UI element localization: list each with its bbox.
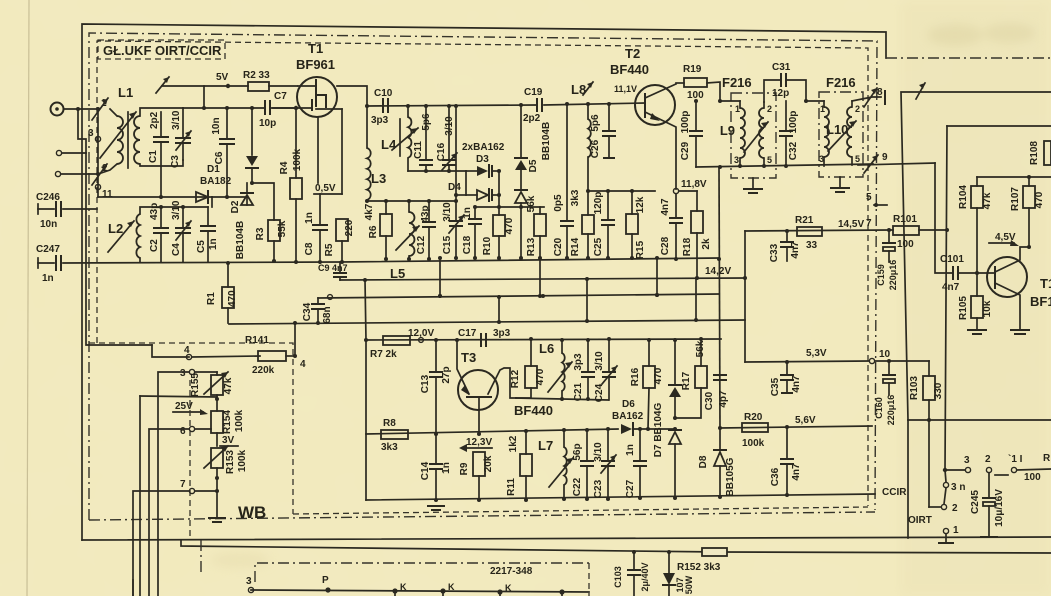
svg-text:C31: C31 <box>772 62 791 73</box>
output wire y420 <box>908 419 1051 421</box>
C4 3/10 variable <box>171 200 191 262</box>
supply wire left stub with arrow <box>162 85 204 87</box>
D6 BA162 series diode <box>612 399 675 435</box>
connector wire y590 <box>251 590 589 592</box>
D7 BB104G varicap pair <box>653 340 681 500</box>
svg-text:3: 3 <box>734 155 739 165</box>
svg-text:C159: C159 <box>876 264 886 286</box>
main RF rail y106 <box>367 105 536 106</box>
svg-text:K: K <box>448 582 455 592</box>
svg-text:2: 2 <box>767 104 772 114</box>
rail junction dots <box>365 104 369 108</box>
svg-text:100k: 100k <box>234 409 245 432</box>
svg-text:D2: D2 <box>230 200 241 213</box>
svg-text:3/10: 3/10 <box>171 200 182 220</box>
connector pins K <box>392 582 564 596</box>
R7 2k <box>370 336 410 360</box>
svg-text:3/10: 3/10 <box>593 442 604 462</box>
svg-text:100p: 100p <box>788 111 799 134</box>
svg-text:C35: C35 <box>770 377 781 396</box>
T3 BF440 <box>457 341 553 436</box>
C32 100p <box>780 101 799 166</box>
R20 100k <box>742 412 768 449</box>
switch contact 3n <box>943 470 965 493</box>
R12 470 <box>510 339 546 398</box>
svg-text:100: 100 <box>897 239 914 250</box>
supply rail B y280 (14,2V) <box>340 278 745 280</box>
svg-text:3p3: 3p3 <box>371 115 389 126</box>
svg-text:R107: R107 <box>1010 187 1021 211</box>
svg-text:R141: R141 <box>245 335 269 346</box>
svg-text:C160: C160 <box>874 397 884 419</box>
R103 330 <box>909 361 944 507</box>
svg-text:10k: 10k <box>982 300 993 317</box>
svg-text:10: 10 <box>879 349 891 360</box>
base rail F y434 <box>366 429 618 434</box>
T1 BF961 <box>273 41 342 183</box>
svg-text:BB104B: BB104B <box>541 122 552 160</box>
C103 <box>613 550 650 596</box>
svg-text:WB: WB <box>238 503 266 522</box>
svg-text:C21: C21 <box>573 382 584 401</box>
svg-text:C13: C13 <box>420 374 431 393</box>
svg-text:R18: R18 <box>682 237 693 256</box>
svg-text:5p6: 5p6 <box>590 114 601 132</box>
R17 56k <box>675 337 707 418</box>
svg-text:C5: C5 <box>196 240 207 253</box>
svg-text:R1: R1 <box>206 292 217 305</box>
svg-text:3: 3 <box>246 576 252 587</box>
svg-text:3: 3 <box>964 455 970 466</box>
svg-text:3: 3 <box>88 128 94 139</box>
R155 47k pot <box>190 372 234 411</box>
svg-text:220μ16: 220μ16 <box>888 260 898 291</box>
svg-text:1n: 1n <box>208 238 219 250</box>
svg-text:C23: C23 <box>593 479 604 498</box>
C9 4n7 <box>318 262 348 280</box>
antenna wire top right <box>901 92 1051 420</box>
L1 primary winding <box>117 116 123 164</box>
svg-text:3/10: 3/10 <box>444 116 455 136</box>
svg-text:220k: 220k <box>252 365 275 376</box>
D8 BB105G <box>698 428 736 499</box>
wire D1/D2 to R3 <box>252 183 274 220</box>
L2 tuning arrow <box>108 221 134 252</box>
svg-text:R103: R103 <box>909 376 920 400</box>
C16 3/10 variable <box>436 106 457 173</box>
R153 bottom ground <box>209 491 225 522</box>
svg-text:3/10: 3/10 <box>442 202 453 222</box>
R154 100k <box>211 409 245 446</box>
node 1 tuning arrow <box>92 98 108 120</box>
svg-text:R105: R105 <box>958 296 969 320</box>
L1 tuning arrow <box>100 112 136 158</box>
WB block dashed cutout border <box>89 343 293 514</box>
svg-text:C22: C22 <box>572 477 583 496</box>
svg-text:4n7: 4n7 <box>660 198 671 216</box>
node 2 tuning arrow <box>92 164 107 185</box>
D4 diode <box>448 182 499 201</box>
svg-text:L9: L9 <box>720 123 735 138</box>
rail C y297 <box>318 294 719 298</box>
bottom strip dashed right edge <box>588 563 590 596</box>
svg-text:L5: L5 <box>390 266 405 281</box>
5,3V wire y362 <box>745 361 869 362</box>
C159 220u16 <box>876 228 898 290</box>
wire terminal3 to node2 <box>61 173 98 175</box>
svg-text:L7: L7 <box>538 438 553 453</box>
svg-text:C33: C33 <box>769 243 780 262</box>
C17 3p3 series <box>458 328 511 346</box>
node 9 output <box>858 152 935 173</box>
svg-text:R12: R12 <box>510 369 521 388</box>
svg-text:C2: C2 <box>149 239 160 252</box>
svg-text:100k: 100k <box>742 438 765 449</box>
R1 470 <box>206 261 238 323</box>
svg-text:R2 33: R2 33 <box>243 70 270 81</box>
svg-text:C4: C4 <box>171 243 182 256</box>
C23 3/10 variable <box>593 427 616 501</box>
svg-text:1n: 1n <box>462 207 473 219</box>
left vertical x366 down <box>365 340 367 500</box>
zener diode bottom <box>663 550 694 596</box>
IF block top border <box>947 125 1051 127</box>
C22 56p <box>572 428 593 501</box>
svg-text:1n: 1n <box>42 273 54 284</box>
R107 470 <box>1010 177 1045 249</box>
svg-text:2p2: 2p2 <box>523 113 541 124</box>
svg-text:T1: T1 <box>308 41 323 56</box>
node 3 testpoint <box>95 136 100 141</box>
svg-text:K: K <box>505 583 512 593</box>
svg-text:120p: 120p <box>593 192 604 215</box>
L10 transformer <box>819 101 860 166</box>
antenna ground wire x86 <box>86 153 152 345</box>
wire x908 down <box>907 420 909 538</box>
svg-text:2217-348: 2217-348 <box>490 566 533 577</box>
C20 0p5 <box>553 104 573 260</box>
svg-text:D7 BB104G: D7 BB104G <box>653 403 664 458</box>
svg-text:3: 3 <box>180 368 186 379</box>
L2 winding <box>136 214 140 258</box>
riser rail197 to L2 tank <box>211 197 213 207</box>
svg-text:C17: C17 <box>458 328 477 339</box>
svg-text:3V: 3V <box>222 435 235 446</box>
svg-text:C9 4n7: C9 4n7 <box>318 263 348 273</box>
module dash-dot bottom border <box>89 512 875 520</box>
R8 3k3 <box>381 418 408 453</box>
T2 BF440 <box>610 46 676 189</box>
C160 220u16 <box>874 361 896 425</box>
C34 68n <box>302 298 333 324</box>
oscillator tank top rail y201 <box>367 200 456 202</box>
AFC wire y428 <box>720 426 872 428</box>
L5 <box>390 201 419 281</box>
C36 4n7 <box>770 427 802 497</box>
C19 2p2 <box>523 87 543 124</box>
3V label <box>220 435 238 446</box>
svg-text:220: 220 <box>344 219 355 236</box>
svg-text:C3: C3 <box>170 155 181 168</box>
T101 BF194 <box>987 247 1051 330</box>
svg-text:R19: R19 <box>683 64 702 75</box>
ground symbol under L10 <box>831 177 849 192</box>
ground rail G y500 <box>366 494 875 500</box>
node 3 circle <box>158 368 217 596</box>
svg-text:56k: 56k <box>695 340 706 357</box>
R19 100 <box>676 64 720 101</box>
svg-text:K: K <box>400 582 407 592</box>
svg-text:R17: R17 <box>681 371 692 390</box>
svg-text:68n: 68n <box>322 306 333 323</box>
svg-text:47k: 47k <box>982 192 993 209</box>
svg-text:100: 100 <box>1024 472 1041 483</box>
svg-text:R20: R20 <box>744 412 763 423</box>
node 1 dot <box>96 107 100 111</box>
L4 tank bottom rail <box>408 170 466 172</box>
node 10 <box>869 349 929 364</box>
svg-text:2xBA162: 2xBA162 <box>462 142 505 153</box>
svg-text:0p5: 0p5 <box>553 194 564 212</box>
svg-text:T3: T3 <box>461 350 476 365</box>
svg-text:6: 6 <box>180 426 186 437</box>
svg-text:3p3: 3p3 <box>573 353 584 371</box>
svg-text:C11: C11 <box>413 141 424 159</box>
wire R19 to L9 <box>720 100 740 102</box>
svg-text:11: 11 <box>102 189 113 200</box>
C10 3p3 <box>371 88 393 126</box>
svg-text:C12: C12 <box>416 235 427 254</box>
svg-text:33: 33 <box>806 240 818 251</box>
svg-text:R104: R104 <box>958 185 969 209</box>
wire antenna shield loop <box>78 109 86 153</box>
T1 drain feed corner <box>337 86 367 106</box>
svg-text:2p2: 2p2 <box>149 111 160 129</box>
node 11 testpoint <box>95 184 100 189</box>
C13 27p <box>420 340 452 436</box>
R21 supply wire y231 <box>745 230 893 231</box>
svg-text:R6: R6 <box>368 225 379 238</box>
R14 3k3 <box>570 189 594 260</box>
supply rail H y177 <box>977 176 1051 178</box>
riser x499 C to D <box>498 296 500 322</box>
node column x98 <box>97 109 99 197</box>
svg-text:5: 5 <box>866 192 872 203</box>
C246 feedthrough <box>36 192 97 230</box>
svg-text:F216: F216 <box>826 75 856 90</box>
collector wire to L6 tank y399 <box>516 398 608 400</box>
0,5V label <box>314 183 342 194</box>
left feed riser x365 <box>365 280 366 340</box>
faint page fold line left <box>27 0 29 596</box>
svg-text:4n7: 4n7 <box>791 463 802 481</box>
svg-text:3p3: 3p3 <box>493 328 511 339</box>
IF rail y191 <box>588 190 655 192</box>
antenna connector J1 <box>51 103 64 116</box>
D2 BB104B varicap <box>230 183 253 259</box>
svg-text:7: 7 <box>180 479 186 490</box>
R101 100 <box>893 214 947 250</box>
rail E y340 <box>366 339 721 340</box>
L1 secondary winding <box>134 116 140 164</box>
ghost bleed-through text top right <box>210 23 1036 568</box>
12,3V label <box>459 437 492 452</box>
svg-text:11,1V: 11,1V <box>614 84 637 94</box>
svg-text:D4: D4 <box>448 182 461 193</box>
svg-text:C16: C16 <box>436 142 447 161</box>
svg-text:5,3V: 5,3V <box>806 348 827 359</box>
svg-text:R153: R153 <box>225 450 236 474</box>
node 7 circle <box>133 479 219 596</box>
D3/D4 left tie <box>465 171 467 195</box>
svg-text:10n: 10n <box>211 117 222 134</box>
module dash-dot border <box>89 33 877 520</box>
riser x719 F216 gnd to lower <box>719 168 720 428</box>
svg-text:10n: 10n <box>40 219 57 230</box>
svg-text:C14: C14 <box>420 461 431 480</box>
C3 3/10 variable <box>170 108 191 168</box>
switch contact 3 <box>943 455 971 473</box>
L1 tank top rail <box>140 108 183 116</box>
wire terminal2 <box>62 152 86 154</box>
svg-text:C25: C25 <box>593 237 604 256</box>
svg-text:4: 4 <box>300 359 306 370</box>
C30 4p7 <box>704 375 729 410</box>
R153 100k pot <box>204 446 248 489</box>
svg-text:1: 1 <box>953 525 959 536</box>
C18 1n <box>462 207 481 260</box>
svg-text:3k3: 3k3 <box>381 442 398 453</box>
svg-text:BF440: BF440 <box>514 403 553 418</box>
module outer solid border <box>82 24 886 540</box>
bias wire y207 <box>456 194 466 196</box>
svg-text:L4: L4 <box>381 137 397 152</box>
svg-text:R152 3k3: R152 3k3 <box>677 562 721 573</box>
svg-text:C27: C27 <box>625 479 636 498</box>
svg-text:2: 2 <box>952 503 958 514</box>
svg-text:R14: R14 <box>570 237 581 256</box>
rail continues after C19 <box>544 103 645 105</box>
svg-text:330: 330 <box>933 382 944 399</box>
C12 43p <box>416 201 435 261</box>
R21 33 <box>795 215 822 251</box>
R141 220k <box>192 323 306 376</box>
node 2 dot <box>96 172 100 176</box>
svg-text:C7: C7 <box>274 91 287 102</box>
11,8V node <box>673 179 707 194</box>
svg-text:C20: C20 <box>553 237 564 256</box>
L4 <box>381 106 418 171</box>
svg-text:3/10: 3/10 <box>171 110 182 130</box>
svg-text:BF440: BF440 <box>610 62 649 77</box>
svg-text:C36: C36 <box>770 467 781 486</box>
svg-text:5V: 5V <box>216 72 229 83</box>
node 8 output <box>852 87 885 107</box>
D3 diode <box>466 154 499 177</box>
connector pin 3 <box>246 576 254 593</box>
svg-text:5: 5 <box>767 155 772 165</box>
svg-text:4k7: 4k7 <box>364 203 375 220</box>
IF block left wire x947 <box>945 126 947 470</box>
riser x587 B to D <box>586 279 588 321</box>
svg-text:56p: 56p <box>572 443 583 460</box>
C21 3p3 <box>573 340 594 401</box>
F216 box 2 <box>819 92 863 177</box>
label box GL.UKF <box>98 40 225 59</box>
module dashed inner border bottom <box>293 507 868 514</box>
rail D y322 <box>229 320 745 324</box>
svg-text:4n7: 4n7 <box>790 241 801 259</box>
D5 BB104B varicap pair <box>515 105 552 260</box>
svg-text:R154: R154 <box>222 410 233 434</box>
svg-text:100k: 100k <box>237 449 248 472</box>
R5 220 <box>324 219 355 264</box>
antenna terminal 2 <box>56 150 61 155</box>
svg-text:14,2V: 14,2V <box>705 266 731 277</box>
25V label <box>173 401 208 415</box>
pot gang dashed link <box>189 380 191 540</box>
svg-text:C24: C24 <box>594 383 605 402</box>
svg-text:R10: R10 <box>482 236 493 255</box>
L9 transformer <box>720 101 772 167</box>
C2 43p trimmer <box>149 203 168 262</box>
svg-text:470: 470 <box>535 368 546 385</box>
R105 10k <box>958 273 993 334</box>
svg-text:12p: 12p <box>772 88 789 99</box>
svg-text:R11: R11 <box>506 478 517 496</box>
F216 ground rail y167 <box>696 164 873 167</box>
svg-text:43p: 43p <box>149 203 160 220</box>
switch blade to contact 2 <box>929 488 958 514</box>
svg-text:C28: C28 <box>660 236 671 255</box>
ground symbol under L9 <box>744 178 762 193</box>
C27 1n <box>625 427 646 500</box>
module dashed inner border top <box>97 41 868 506</box>
svg-text:C246: C246 <box>36 192 60 203</box>
riser x543 / x657 <box>655 256 659 297</box>
svg-text:D3: D3 <box>476 154 489 165</box>
node 4 wire <box>152 345 189 357</box>
svg-text:0,5V: 0,5V <box>315 183 336 194</box>
svg-text:C247: C247 <box>36 244 60 255</box>
switch contact 1 with ground <box>939 525 959 543</box>
D3/D4 right tie <box>498 171 500 215</box>
C7 10p <box>259 91 297 129</box>
R3 55k <box>255 220 288 263</box>
riser x440 <box>438 256 442 298</box>
svg-text:4n7: 4n7 <box>791 375 802 393</box>
svg-text:5,6V: 5,6V <box>795 415 816 426</box>
L2 leads <box>140 207 208 214</box>
svg-text:470: 470 <box>653 367 664 384</box>
connector pin P <box>322 575 331 593</box>
svg-text:1n: 1n <box>441 462 452 474</box>
series diode on rail197 <box>196 191 247 203</box>
svg-text:C19: C19 <box>524 87 543 98</box>
svg-text:10μ/16V: 10μ/16V <box>994 489 1005 527</box>
svg-text:R9: R9 <box>459 462 470 475</box>
svg-text:D8: D8 <box>698 455 709 468</box>
diode rail y197 <box>98 196 212 198</box>
module bottom solid border <box>82 537 1051 540</box>
svg-text:L3: L3 <box>371 171 386 186</box>
svg-text:C101: C101 <box>940 254 964 265</box>
svg-text:1: 1 <box>820 104 825 114</box>
C33 4n7 <box>769 229 801 262</box>
C28 4n7 <box>660 194 682 261</box>
svg-text:2k: 2k <box>701 238 712 250</box>
svg-text:1k2: 1k2 <box>508 435 519 452</box>
